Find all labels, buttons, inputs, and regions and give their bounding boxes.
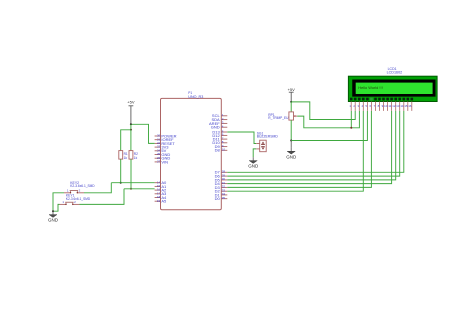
wire GND to LCD pin5 [291, 111, 367, 141]
svg-text:27: 27 [157, 160, 161, 164]
LCD module board [348, 76, 437, 101]
pin D7 (right, #28) [221, 171, 227, 173]
wire pot bottom to GND junction [290, 120, 292, 140]
pin A2 (left, #16) [155, 189, 161, 191]
svg-text:BUZZERSMD: BUZZERSMD [257, 135, 279, 139]
node J1 junction [130, 123, 132, 125]
switch KEY2 [64, 192, 70, 194]
pin RESET (left, #22) [155, 142, 161, 144]
IC P1 UNO_R3 Arduino body [161, 98, 222, 209]
pin A1 (left, #15) [155, 185, 161, 187]
LCD screen bezel [353, 80, 436, 97]
svg-text:1: 1 [67, 189, 69, 193]
pin D8 (right, #10) [221, 149, 227, 151]
wire pot GND stem [290, 141, 292, 148]
svg-text:R_TRIMP_EU: R_TRIMP_EU [268, 116, 289, 120]
ground (pot) [290, 148, 292, 151]
svg-text:K2-3.6x6.1_SMD: K2-3.6x6.1_SMD [66, 197, 91, 201]
svg-text:10: 10 [222, 148, 226, 152]
svg-text:35: 35 [222, 196, 226, 200]
wire A0 row [111, 182, 154, 184]
wire D6 to LCD pin 13 [227, 111, 399, 176]
pin D4 (right, #31) [221, 183, 227, 185]
wire R1 bottom to A0 net [120, 159, 122, 183]
svg-text:D0: D0 [215, 196, 221, 201]
pin D12 (right, #6) [221, 134, 227, 136]
wire KEY2 pin2 to A0 net [84, 183, 111, 193]
wire J2 to R1 top [121, 130, 131, 151]
svg-text:K2-3.6x6.1_SMD: K2-3.6x6.1_SMD [70, 184, 95, 188]
svg-text:1k: 1k [124, 156, 128, 160]
svg-text:+5V: +5V [127, 99, 135, 104]
wire +5V to RESET pin [131, 124, 155, 143]
pin VIN (left, #27) [155, 161, 161, 163]
svg-text:19: 19 [157, 199, 161, 203]
node A0 junction [120, 182, 122, 184]
pin D0 (right, #35) [221, 198, 227, 200]
wire J1 to J2 [130, 124, 132, 130]
LCD pads row [350, 98, 353, 101]
ground (buzzer) [252, 157, 254, 160]
node J2 junction [130, 129, 132, 131]
wire D2 to LCD pin 4 [227, 111, 363, 191]
node wiper junction [350, 127, 352, 129]
pin D3 (right, #32) [221, 186, 227, 188]
pin A0 (left, #14) [155, 182, 161, 184]
node GND junction (keys) [52, 210, 54, 212]
pin SDA (right, #2) [221, 119, 227, 121]
svg-text:Hello World !!!: Hello World !!! [358, 85, 382, 90]
pin D5 (right, #30) [221, 179, 227, 181]
svg-text:GND: GND [48, 218, 59, 223]
wire KEY2 pin1 to GND [53, 193, 64, 211]
svg-text:+5V: +5V [288, 87, 296, 92]
svg-text:GND: GND [286, 154, 297, 159]
pin A5 (left, #19) [155, 200, 161, 202]
wire D7 to LCD pin 14 [227, 111, 403, 172]
pin D10 (right, #8) [221, 142, 227, 144]
wire D3 to LCD pin 6 [227, 111, 371, 187]
pin AREF (right, #3) [221, 122, 227, 124]
svg-text:1k: 1k [134, 156, 138, 160]
svg-text:A5: A5 [161, 199, 167, 204]
pin SCL (right, #1) [221, 115, 227, 117]
potentiometer RP1 [289, 112, 294, 120]
svg-text:D8: D8 [215, 148, 221, 153]
pin GND (left, #25) [155, 154, 161, 156]
resistor R2 [129, 151, 133, 160]
pin 5V (left, #24) [155, 150, 161, 152]
switch KEY1 [60, 203, 66, 205]
pin 3V3 (left, #23) [155, 146, 161, 148]
pin D13 (right, #5) [221, 131, 227, 133]
wire D5 to LCD pin 12 [227, 111, 395, 180]
wire +5V to pot top [290, 102, 292, 112]
node A1 junction [130, 188, 132, 190]
svg-text:VIN: VIN [161, 159, 168, 164]
pin D2 (right, #33) [221, 190, 227, 192]
svg-text:LCD1602: LCD1602 [387, 70, 403, 74]
svg-text:10: 10 [384, 104, 388, 108]
pin GND (right, #4) [221, 126, 227, 128]
LCD pins 1-16 [350, 102, 352, 111]
svg-text:2: 2 [79, 189, 81, 193]
wire +5V to LCD pin2 [291, 102, 355, 120]
wire KEY1 pin2 to A1 net [80, 189, 125, 205]
resistor R1 [119, 151, 123, 160]
svg-text:16: 16 [408, 104, 412, 108]
LCD screen [356, 83, 433, 94]
pin D6 (right, #29) [221, 175, 227, 177]
node GND junction (pot) [290, 140, 292, 142]
pin D1 (right, #34) [221, 194, 227, 196]
pin A4 (left, #18) [155, 197, 161, 199]
svg-text:1: 1 [62, 200, 64, 204]
svg-text:UNO_R3: UNO_R3 [188, 95, 203, 99]
wire J2 to R2 top [130, 130, 132, 151]
pin GND (left, #26) [155, 157, 161, 159]
wire R2 bottom to A1 net [130, 159, 132, 189]
wire LCD pin1 down to wiper net [350, 111, 352, 128]
svg-text:4: 4 [222, 125, 224, 129]
pin IOREF (left, #21) [155, 139, 161, 141]
node +5V junction (pot) [290, 101, 292, 103]
wire KEY1 pin1 to GND [53, 204, 60, 211]
wire D4 to LCD pin 11 [227, 111, 391, 184]
svg-text:13: 13 [396, 104, 400, 108]
pin A3 (left, #17) [155, 193, 161, 195]
buzzer SG1 [260, 140, 267, 152]
wire D13 to buzzer [227, 132, 256, 144]
pin D11 (right, #7) [221, 138, 227, 140]
wire A1 row [124, 188, 155, 190]
svg-text:GND: GND [248, 164, 259, 169]
wire buzzer pin2 to GND [253, 149, 256, 157]
ground (keys) [52, 211, 54, 214]
wire wiper to LCD pin3 [297, 111, 359, 128]
pin D9 (right, #9) [221, 146, 227, 148]
pin POWER (left, #20) [155, 135, 161, 137]
svg-text:11: 11 [388, 104, 391, 108]
